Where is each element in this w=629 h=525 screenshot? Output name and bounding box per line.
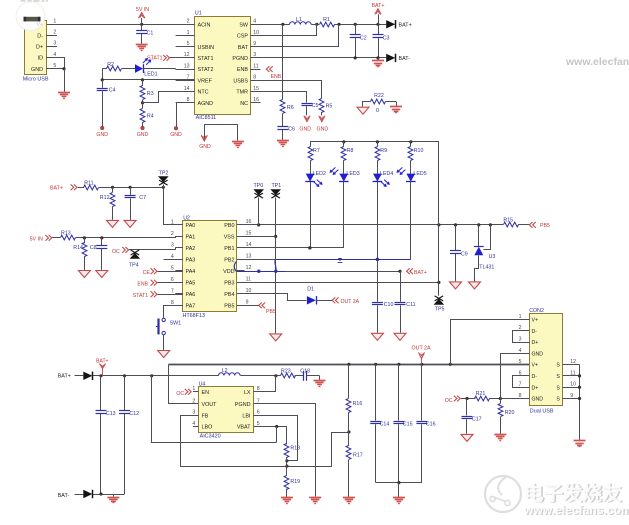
svg-text:www.elecfans.com: www.elecfans.com	[523, 503, 629, 517]
svg-text:TP5: TP5	[435, 307, 445, 313]
svg-text:PA1: PA1	[186, 235, 196, 241]
svg-text:2: 2	[192, 398, 195, 404]
svg-text:PB5: PB5	[540, 223, 550, 229]
svg-text:U4: U4	[199, 381, 206, 387]
svg-text:4: 4	[53, 52, 56, 58]
svg-text:www.elecfans.com: www.elecfans.com	[565, 56, 629, 68]
svg-text:R12: R12	[100, 195, 110, 201]
svg-text:R21: R21	[476, 391, 486, 397]
svg-text:D1: D1	[307, 287, 314, 293]
svg-text:5V IN: 5V IN	[136, 7, 149, 13]
svg-text:R4: R4	[147, 114, 154, 120]
svg-text:PB5: PB5	[266, 309, 276, 315]
svg-text:C10: C10	[384, 302, 394, 308]
svg-text:TP1: TP1	[271, 183, 281, 189]
svg-text:GND: GND	[137, 132, 149, 138]
svg-text:PA2: PA2	[186, 246, 196, 252]
svg-text:GND: GND	[532, 397, 544, 403]
svg-text:C14: C14	[380, 422, 390, 428]
svg-text:S: S	[556, 385, 560, 391]
svg-text:8: 8	[253, 75, 256, 81]
svg-text:D+: D+	[36, 45, 43, 51]
svg-text:C9: C9	[461, 251, 468, 257]
svg-text:U3: U3	[489, 254, 496, 260]
svg-text:V+: V+	[532, 363, 539, 369]
svg-text:PB1: PB1	[224, 246, 234, 252]
svg-text:6: 6	[257, 410, 260, 416]
svg-text:D+: D+	[532, 340, 539, 346]
svg-text:BAT-: BAT-	[399, 56, 411, 62]
svg-text:VDD: VDD	[223, 269, 234, 275]
svg-text:C1: C1	[147, 30, 154, 36]
svg-text:S: S	[556, 363, 560, 369]
svg-text:TL431: TL431	[479, 264, 494, 270]
svg-text:1: 1	[171, 219, 174, 225]
svg-text:D-: D-	[532, 374, 538, 380]
svg-text:BAT+: BAT+	[50, 185, 63, 191]
svg-text:15: 15	[253, 86, 259, 92]
svg-text:BAT+: BAT+	[96, 358, 108, 364]
svg-text:GND: GND	[299, 126, 311, 132]
svg-text:SW1: SW1	[170, 320, 182, 326]
svg-text:13: 13	[184, 63, 190, 69]
svg-text:VOUT: VOUT	[202, 402, 218, 408]
svg-text:3: 3	[53, 41, 56, 47]
svg-text:TP0: TP0	[253, 183, 263, 189]
svg-text:5V IN: 5V IN	[30, 236, 43, 242]
svg-text:R16: R16	[353, 401, 363, 407]
svg-text:C2: C2	[360, 36, 367, 42]
svg-text:OC: OC	[112, 249, 120, 255]
svg-text:5: 5	[519, 359, 522, 365]
svg-text:OC: OC	[445, 398, 453, 404]
svg-text:C8: C8	[90, 245, 97, 251]
svg-text:PB5: PB5	[224, 304, 234, 310]
svg-text:R22: R22	[374, 93, 384, 99]
svg-text:13: 13	[246, 254, 252, 260]
svg-text:PB0: PB0	[224, 223, 234, 229]
svg-text:2: 2	[171, 231, 174, 237]
svg-text:7: 7	[519, 382, 522, 388]
svg-text:C4: C4	[109, 87, 116, 93]
svg-text:Dual USB: Dual USB	[530, 409, 554, 415]
svg-text:ENB: ENB	[137, 282, 148, 288]
svg-text:4: 4	[192, 421, 195, 427]
svg-text:R1: R1	[323, 17, 330, 23]
svg-text:CSP: CSP	[237, 34, 248, 40]
svg-text:C17: C17	[472, 416, 482, 422]
svg-text:PB4: PB4	[224, 292, 234, 298]
svg-text:1: 1	[53, 19, 56, 25]
svg-text:LX: LX	[244, 390, 251, 396]
svg-text:4: 4	[519, 348, 522, 354]
svg-text:R10: R10	[414, 148, 424, 154]
svg-text:C12: C12	[129, 411, 139, 417]
svg-text:R6: R6	[287, 105, 294, 111]
svg-text:STAT1: STAT1	[133, 293, 148, 299]
svg-text:0: 0	[376, 108, 379, 114]
svg-text:R20: R20	[505, 410, 515, 416]
svg-text:R2: R2	[107, 62, 114, 68]
svg-text:C11: C11	[406, 302, 415, 308]
svg-text:Micro USB: Micro USB	[23, 77, 49, 83]
svg-text:V+: V+	[37, 22, 44, 28]
svg-text:PA3: PA3	[186, 258, 196, 264]
svg-text:C18: C18	[300, 368, 310, 374]
svg-text:14: 14	[184, 86, 190, 92]
svg-text:ACIN: ACIN	[198, 22, 211, 28]
svg-text:16: 16	[253, 97, 259, 103]
svg-text:12: 12	[570, 359, 576, 365]
svg-text:HT68F13: HT68F13	[183, 313, 205, 319]
svg-text:1: 1	[192, 386, 195, 392]
svg-text:V+: V+	[532, 318, 539, 324]
svg-text:FB: FB	[202, 413, 209, 419]
svg-text:L1: L1	[296, 17, 302, 23]
svg-text:6: 6	[171, 277, 174, 283]
svg-text:ENB: ENB	[271, 74, 282, 80]
svg-text:TP2: TP2	[159, 170, 169, 176]
svg-text:BAT+: BAT+	[414, 270, 427, 276]
svg-text:10: 10	[253, 30, 259, 36]
svg-text:12: 12	[246, 265, 252, 271]
svg-text:LED3: LED3	[346, 171, 359, 177]
svg-text:LBO: LBO	[202, 425, 213, 431]
svg-text:C16: C16	[426, 422, 436, 428]
svg-text:R19: R19	[290, 479, 300, 485]
svg-text:USBS: USBS	[233, 78, 248, 84]
svg-text:5: 5	[187, 41, 190, 47]
svg-text:9: 9	[570, 393, 573, 399]
svg-text:U1: U1	[195, 11, 202, 17]
svg-text:PA4: PA4	[186, 269, 196, 275]
svg-text:AIC3420: AIC3420	[200, 433, 221, 439]
svg-text:R23: R23	[281, 368, 291, 374]
svg-text:CON2: CON2	[529, 308, 544, 314]
svg-text:STAT1: STAT1	[198, 56, 214, 62]
svg-text:R8: R8	[347, 148, 354, 154]
svg-text:LED4: LED4	[380, 171, 393, 177]
svg-text:R13: R13	[61, 230, 71, 236]
svg-text:GND: GND	[532, 351, 544, 357]
svg-text:R11: R11	[84, 181, 93, 187]
svg-text:C3: C3	[383, 36, 390, 42]
svg-text:12: 12	[184, 52, 190, 58]
svg-text:8: 8	[171, 300, 174, 306]
svg-text:10: 10	[570, 382, 576, 388]
svg-text:BAT-: BAT-	[58, 493, 70, 499]
svg-text:4: 4	[253, 19, 256, 25]
svg-text:3: 3	[192, 410, 195, 416]
svg-text:OC: OC	[176, 391, 184, 397]
svg-text:SW: SW	[239, 22, 249, 28]
svg-text:EN: EN	[202, 390, 210, 396]
svg-text:CE: CE	[143, 270, 151, 276]
svg-text:3: 3	[171, 242, 174, 248]
svg-text:BAT+: BAT+	[58, 373, 71, 379]
svg-text:LBI: LBI	[242, 413, 250, 419]
svg-text:D-: D-	[37, 34, 43, 40]
svg-text:PA6: PA6	[186, 292, 196, 298]
svg-text:VBAT: VBAT	[237, 425, 251, 431]
svg-text:GND: GND	[170, 132, 182, 138]
svg-text:1: 1	[187, 30, 190, 36]
svg-text:AIC8511: AIC8511	[196, 115, 217, 121]
svg-text:LED2: LED2	[313, 171, 326, 177]
svg-text:C7: C7	[139, 195, 146, 201]
svg-text:L2: L2	[222, 368, 228, 374]
svg-text:8: 8	[519, 393, 522, 399]
svg-text:ID: ID	[38, 56, 43, 62]
svg-text:9: 9	[246, 300, 249, 306]
svg-text:电子发烧友: 电子发烧友	[524, 482, 622, 505]
svg-text:S: S	[556, 397, 560, 403]
svg-text:3: 3	[519, 337, 522, 343]
svg-text:BAT+: BAT+	[399, 23, 412, 29]
svg-text:R9: R9	[380, 148, 387, 154]
svg-text:C13: C13	[106, 411, 116, 417]
svg-text:11: 11	[246, 277, 251, 283]
svg-text:OUT 2A: OUT 2A	[412, 346, 432, 352]
svg-text:PA5: PA5	[186, 281, 196, 287]
svg-text:R5: R5	[326, 103, 333, 109]
svg-text:2: 2	[53, 30, 56, 36]
svg-text:R17: R17	[353, 453, 363, 459]
svg-text:GND: GND	[317, 126, 329, 132]
svg-text:11: 11	[570, 370, 575, 376]
svg-text:TMR: TMR	[236, 90, 248, 96]
svg-text:AGND: AGND	[198, 101, 214, 107]
svg-text:C15: C15	[403, 422, 413, 428]
svg-text:7: 7	[171, 288, 174, 294]
svg-text:5: 5	[171, 265, 174, 271]
svg-text:NC: NC	[240, 101, 248, 107]
svg-text:D-: D-	[532, 329, 538, 335]
svg-text:LED5: LED5	[413, 171, 426, 177]
svg-text:S: S	[556, 374, 560, 380]
svg-text:C6: C6	[288, 127, 295, 133]
svg-text:GND: GND	[199, 144, 211, 150]
svg-text:PGND: PGND	[232, 56, 248, 62]
svg-text:PA0: PA0	[186, 223, 196, 229]
svg-text:R15: R15	[503, 217, 513, 223]
svg-text:GND: GND	[31, 67, 43, 73]
svg-text:PGND: PGND	[235, 402, 251, 408]
svg-text:PB3: PB3	[224, 281, 234, 287]
svg-text:STAT2: STAT2	[198, 67, 214, 73]
svg-text:C5: C5	[312, 103, 319, 109]
svg-text:ENB: ENB	[237, 67, 248, 73]
svg-text:TP4: TP4	[129, 262, 139, 268]
svg-text:D+: D+	[532, 385, 539, 391]
svg-text:R3: R3	[147, 91, 154, 97]
svg-text:LED1: LED1	[144, 71, 157, 77]
svg-text:15: 15	[246, 231, 252, 237]
svg-text:GND: GND	[96, 132, 108, 138]
svg-text:VREF: VREF	[198, 78, 213, 84]
svg-text:PA7: PA7	[186, 304, 196, 310]
svg-text:BAT: BAT	[238, 45, 249, 51]
svg-text:U2: U2	[183, 216, 190, 222]
svg-text:PB2: PB2	[224, 258, 234, 264]
svg-text:R7: R7	[313, 148, 320, 154]
svg-text:R14: R14	[73, 245, 83, 251]
svg-text:USBIN: USBIN	[198, 45, 215, 51]
svg-text:4: 4	[171, 254, 174, 260]
svg-text:OUT 2A: OUT 2A	[341, 299, 360, 305]
svg-text:NTC: NTC	[198, 90, 209, 96]
svg-text:R18: R18	[290, 446, 300, 452]
svg-text:11: 11	[253, 63, 258, 69]
svg-text:VSS: VSS	[224, 235, 235, 241]
svg-text:2: 2	[187, 19, 190, 25]
